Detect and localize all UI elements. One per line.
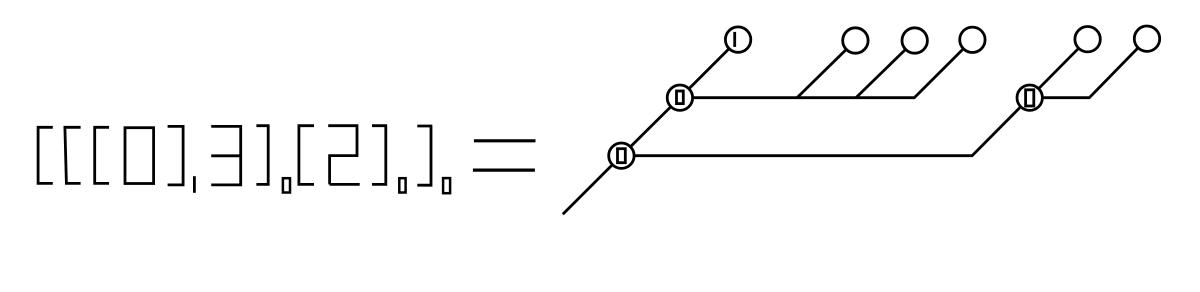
right bracket 4: [417, 126, 432, 185]
left bracket 1: [38, 127, 53, 183]
leaf circle labeled 1: [725, 27, 750, 52]
wire horizontal from A with branch to node E: [621, 98, 1029, 156]
node E (circle labeled 0): [1017, 85, 1042, 110]
digit 0 (boxed zero): [125, 128, 154, 184]
wire branch to leaf L1: [797, 41, 855, 98]
leaf circle L1: [843, 28, 868, 53]
leaf circle L3: [960, 27, 985, 52]
comma 1 (tick): [193, 176, 196, 193]
left bracket 4: [299, 126, 314, 185]
left bracket 3: [95, 127, 109, 183]
wire branch to leaf L2: [856, 41, 915, 98]
right bracket 1: [168, 126, 184, 184]
equals sign: [473, 141, 536, 170]
wire horizontal from E with branch to leaf L5: [1030, 39, 1147, 98]
leaf circle L4: [1075, 27, 1100, 52]
comma 2 (small box): [283, 178, 290, 192]
node B (circle labeled 0): [667, 85, 692, 110]
left bracket 2: [65, 127, 81, 183]
right bracket 3: [372, 126, 387, 185]
wire horizontal from B with branch to leaf L3: [680, 40, 973, 98]
comma 4 (small box): [443, 178, 450, 193]
wire edge A to B: [621, 98, 680, 156]
leaf circle L5: [1134, 26, 1159, 51]
wire root edge: [563, 156, 622, 215]
node A (circle labeled 0): [609, 143, 634, 168]
digit 2: [328, 126, 360, 185]
right bracket 2: [256, 126, 269, 185]
wire edge B to leaf one: [680, 40, 738, 98]
wire edge E to leaf L4: [1030, 39, 1088, 97]
digit 3: [211, 126, 242, 184]
leaf circle L2: [902, 28, 927, 53]
comma 3 (small box): [399, 178, 405, 192]
